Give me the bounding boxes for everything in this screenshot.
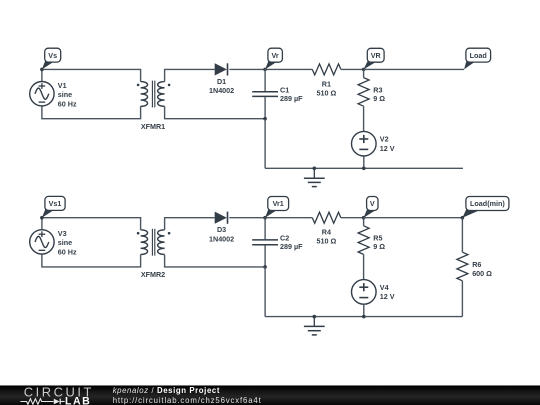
label R3 9 Ohm	[373, 85, 385, 103]
wire: source bottom loop to transformer primary bottom	[42, 254, 141, 267]
junction: V2 / rail	[362, 167, 366, 171]
wire: ground rail	[265, 167, 463, 169]
transformer XFMR1	[137, 81, 171, 108]
node Vs1	[40, 216, 44, 220]
capacitor C2	[252, 240, 278, 245]
CircuitLab logo wordmark	[0, 386, 100, 405]
wire: ground rail	[265, 316, 462, 318]
svg-text:VR: VR	[371, 51, 382, 60]
svg-text:LAB: LAB	[65, 395, 91, 405]
junction: load branch	[461, 216, 465, 220]
voltage source V2 (12 V dc)	[352, 131, 377, 156]
resistor R5	[358, 226, 369, 255]
svg-text:R3: R3	[373, 85, 382, 94]
label D1 1N4002	[209, 77, 234, 95]
voltage source V1 (sine 60 Hz)	[30, 82, 54, 106]
label R1 510 Ohm	[317, 79, 337, 97]
wire: R6 top lead	[461, 218, 463, 253]
resistor R1	[312, 64, 341, 75]
resistor R5 top lead	[363, 218, 365, 226]
svg-text:D3: D3	[217, 225, 226, 234]
svg-text:510 Ω: 510 Ω	[317, 237, 337, 246]
node label V	[364, 197, 378, 218]
node Vs	[40, 68, 44, 72]
svg-text:sine: sine	[58, 238, 72, 247]
wire: capacitor bottom lead	[264, 245, 266, 267]
svg-text:R6: R6	[472, 260, 481, 269]
wire: source top to transformer primary	[42, 69, 141, 81]
svg-text:510 Ω: 510 Ω	[317, 88, 337, 97]
label D3 1N4002	[209, 225, 234, 243]
node label Load(min)	[462, 197, 509, 218]
svg-text:289 µF: 289 µF	[280, 94, 303, 103]
wire: diode to node	[229, 217, 265, 219]
label C1 289 uF	[280, 85, 303, 103]
wire: transformer secondary top to diode	[165, 69, 215, 81]
wire: R5 to V4	[363, 254, 365, 279]
node label Vr1	[265, 197, 288, 218]
wire: V2 to rail	[363, 156, 365, 168]
node label Vs	[42, 48, 61, 69]
logo mini diode	[54, 398, 60, 404]
svg-text:1N4002: 1N4002	[209, 86, 234, 95]
logo mini resistor	[20, 398, 53, 404]
footer bar	[0, 385, 540, 405]
wire: capacitor top lead	[264, 69, 266, 91]
transformer XFMR2	[137, 229, 171, 256]
svg-text:Vr1: Vr1	[273, 199, 284, 208]
wire: source top lead	[41, 218, 43, 230]
svg-text:V4: V4	[380, 283, 389, 292]
svg-text:R1: R1	[322, 79, 331, 88]
wire: diode to node	[229, 68, 265, 70]
node label Vr	[265, 48, 282, 69]
wire: node to resistor	[265, 68, 312, 70]
node label Vs1	[42, 196, 65, 217]
svg-text:60 Hz: 60 Hz	[58, 99, 77, 108]
svg-text:V: V	[370, 199, 375, 208]
diode D1	[215, 63, 228, 75]
node Vr1	[263, 216, 267, 220]
label C2 289 uF	[280, 234, 303, 252]
svg-text:D1: D1	[217, 77, 226, 86]
svg-text:V2: V2	[380, 135, 389, 144]
wire: R6 bottom lead to rail	[461, 281, 463, 317]
svg-text:Load: Load	[470, 51, 487, 60]
node Vr	[263, 68, 267, 72]
wire: transformer secondary bottom	[165, 255, 266, 267]
svg-text:60 Hz: 60 Hz	[58, 248, 77, 257]
svg-text:R4: R4	[322, 228, 331, 237]
voltage source V4 (12 V dc)	[352, 280, 377, 305]
junction: V4 / rail	[362, 315, 366, 319]
node V	[362, 216, 366, 220]
label R4 510 Ohm	[317, 228, 337, 246]
node label VR	[364, 48, 384, 69]
footer credit line	[113, 386, 262, 405]
resistor R4	[312, 212, 341, 223]
resistor R3	[358, 78, 369, 107]
wire: output node to load terminal	[364, 217, 463, 219]
diode D3	[215, 212, 228, 224]
label R5 9 Ohm	[373, 234, 385, 252]
wire: source top to transformer primary	[42, 218, 141, 230]
wire: capacitor top lead	[264, 218, 266, 240]
capacitor C1	[252, 92, 278, 97]
svg-text:289 µF: 289 µF	[280, 242, 303, 251]
wire: down to ground rail	[264, 119, 266, 169]
ground	[304, 315, 325, 335]
label V3 sine 60 Hz	[58, 229, 77, 256]
svg-text:12 V: 12 V	[380, 292, 395, 301]
wire: output node to load terminal	[364, 68, 464, 70]
wire: resistor to output node	[341, 68, 364, 70]
svg-text:9 Ω: 9 Ω	[373, 94, 385, 103]
label V1 sine 60 Hz	[58, 81, 77, 108]
wire: resistor to output node	[341, 217, 364, 219]
svg-text:V3: V3	[58, 229, 67, 238]
svg-text:XFMR1: XFMR1	[141, 122, 165, 131]
wire: transformer secondary top to diode	[165, 218, 215, 230]
label V4 12 V	[380, 283, 395, 301]
wire: source bottom loop to transformer primary bottom	[42, 106, 141, 119]
wire: source top lead	[41, 69, 43, 81]
voltage source V3 (sine 60 Hz)	[30, 230, 54, 254]
label R6 600 Ohm	[472, 260, 492, 278]
svg-text:600 Ω: 600 Ω	[472, 269, 492, 278]
node VR	[362, 68, 366, 72]
svg-text:V1: V1	[58, 81, 67, 90]
wire: transformer secondary bottom	[165, 106, 266, 118]
wire: down to ground rail	[264, 267, 266, 317]
wire: node to resistor	[265, 217, 312, 219]
svg-text:1N4002: 1N4002	[209, 234, 234, 243]
wire: capacitor bottom lead	[264, 97, 266, 119]
svg-text:Vs1: Vs1	[49, 199, 62, 208]
wire: R3 to V2	[363, 106, 365, 131]
svg-text:XFMR2: XFMR2	[141, 270, 165, 279]
svg-text:12 V: 12 V	[380, 144, 395, 153]
resistor R3 top lead	[363, 69, 365, 77]
svg-text:Vr: Vr	[271, 51, 278, 60]
node label Load	[464, 48, 491, 69]
svg-text:9 Ω: 9 Ω	[373, 242, 385, 251]
svg-text:Vs: Vs	[48, 51, 57, 60]
junction: secondary bottom / capacitor	[263, 117, 267, 121]
junction: secondary bottom / capacitor	[263, 265, 267, 269]
resistor R6	[457, 252, 468, 281]
wire: V4 to rail	[363, 304, 365, 316]
label V2 12 V	[380, 135, 395, 154]
ground	[304, 167, 325, 187]
svg-text:sine: sine	[58, 90, 72, 99]
svg-text:Load(min): Load(min)	[470, 199, 505, 208]
